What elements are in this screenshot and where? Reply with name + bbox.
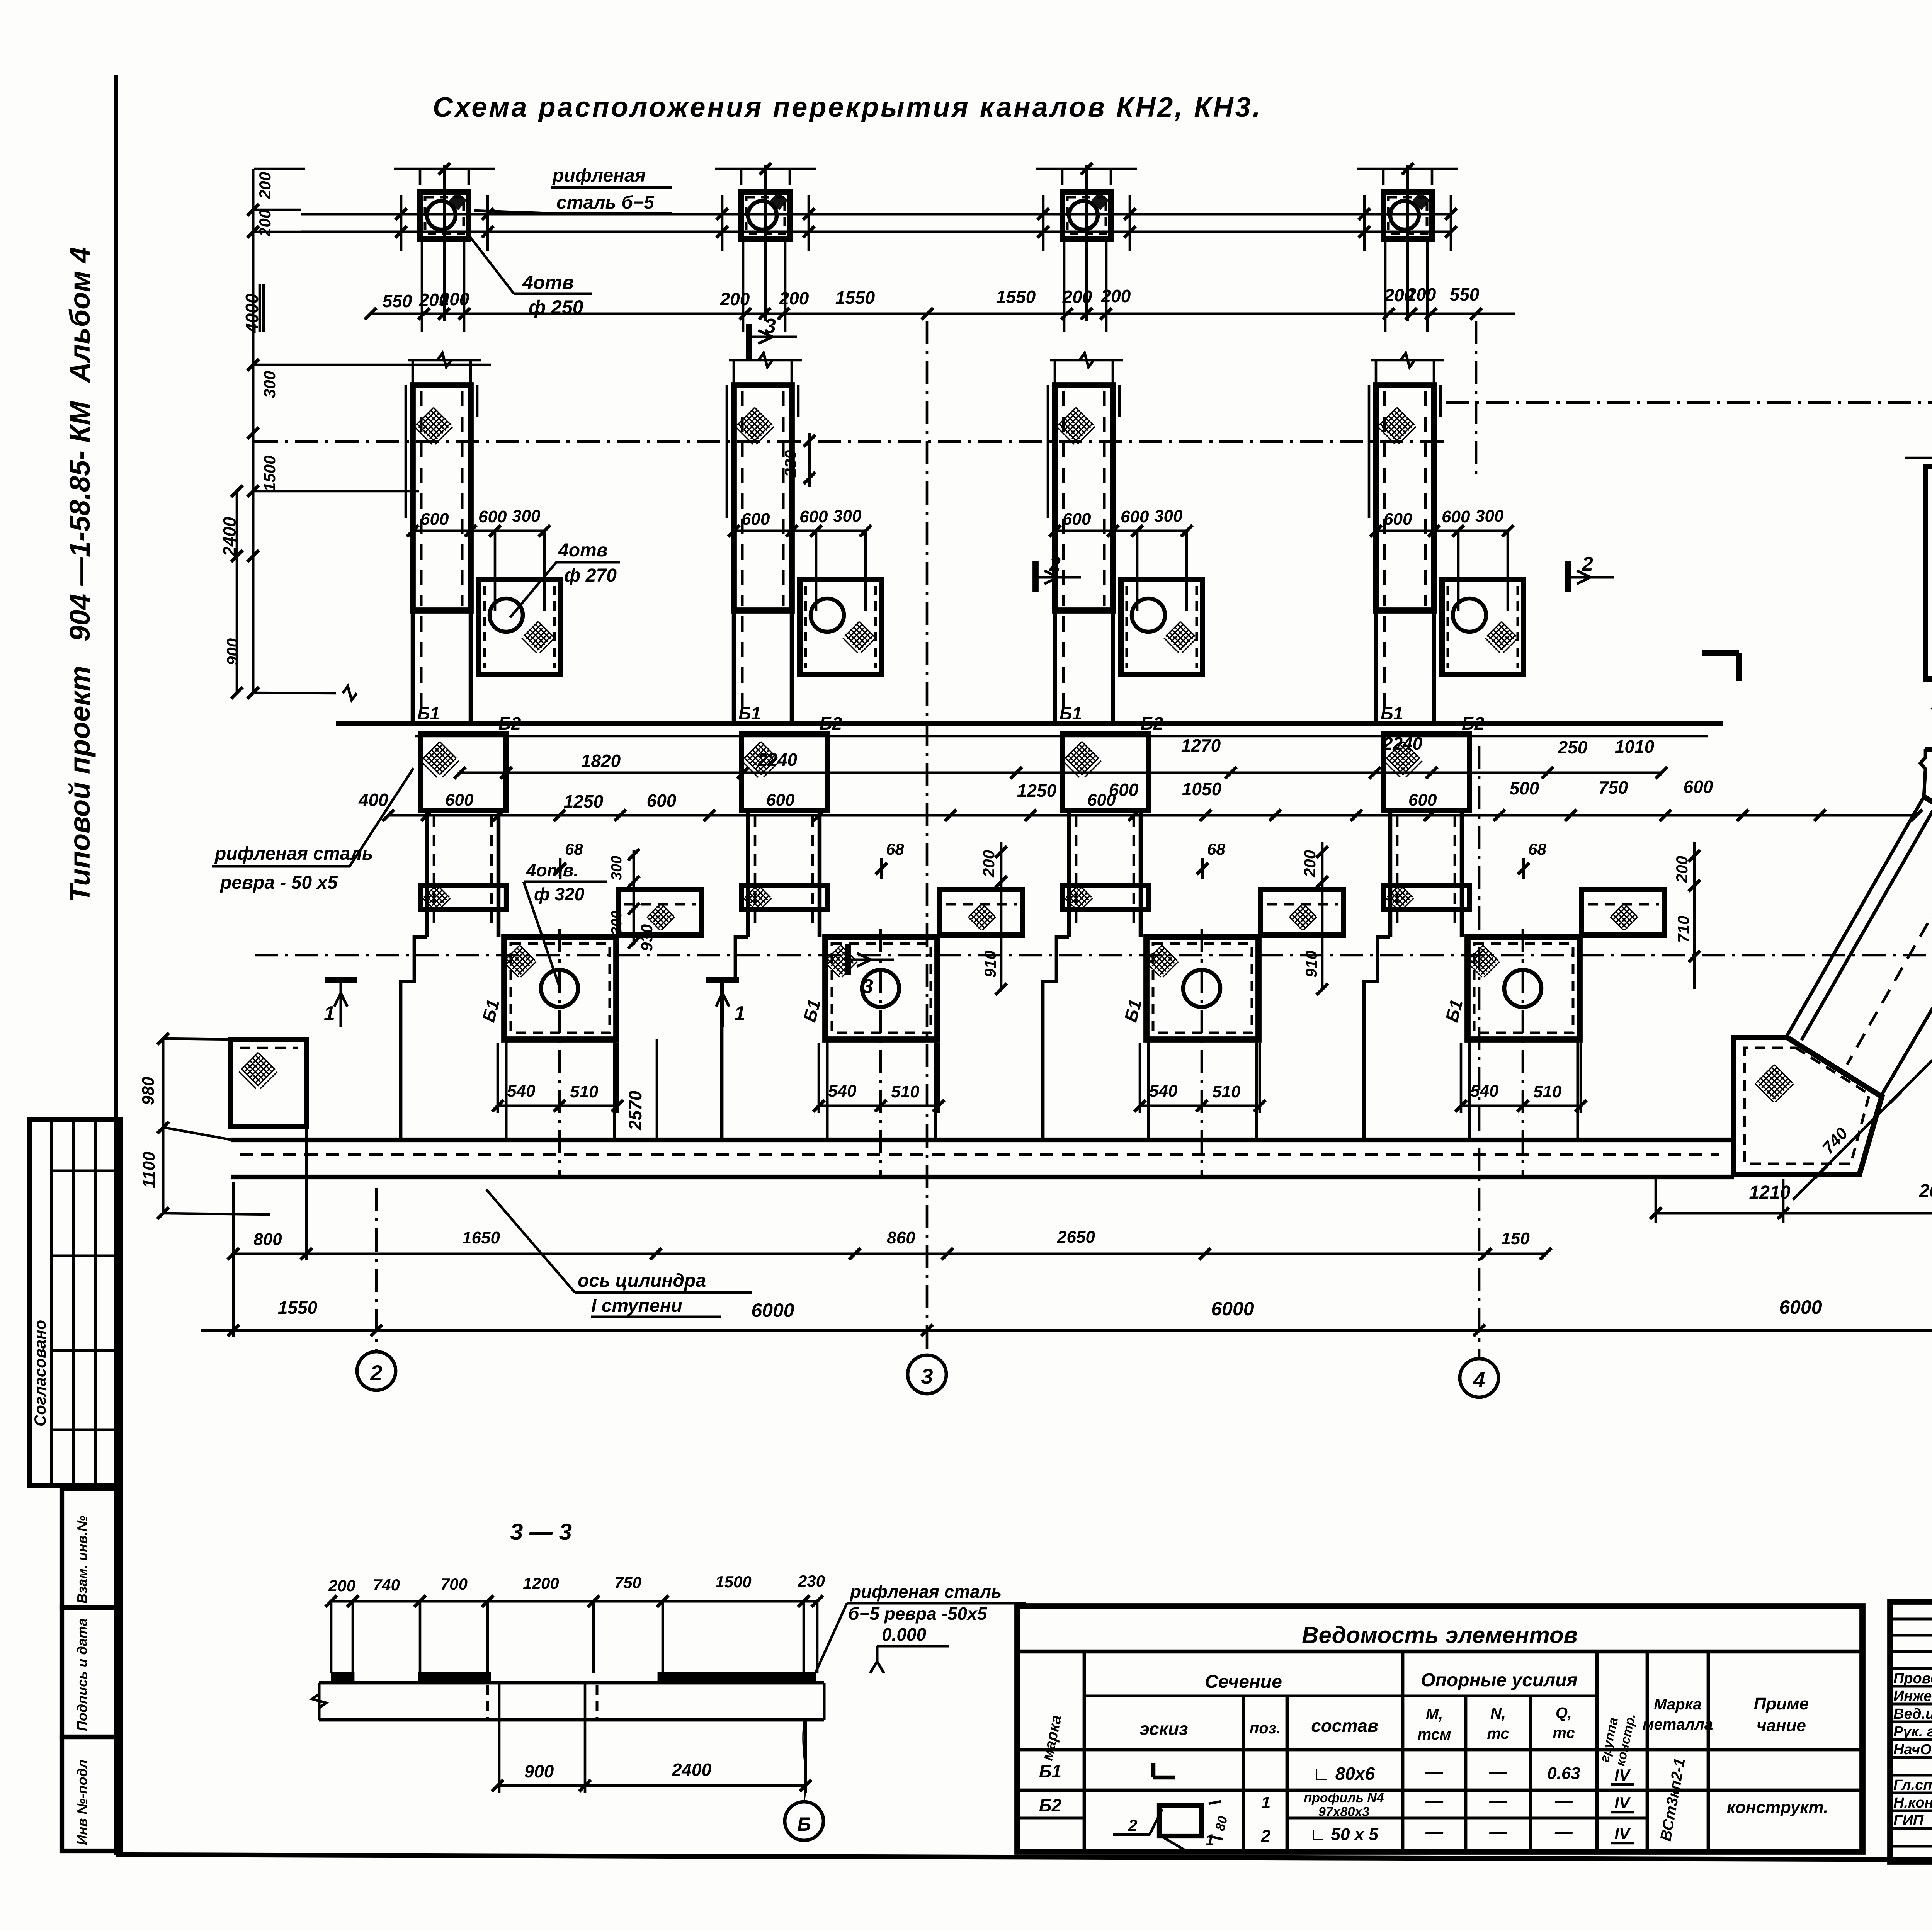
svg-text:4отв: 4отв (522, 272, 574, 293)
unit 3 right P-block (1260, 889, 1344, 935)
svg-text:600: 600 (1384, 510, 1412, 529)
svg-text:ф 320: ф 320 (534, 884, 585, 904)
svg-text:600: 600 (478, 507, 507, 526)
svg-text:1500: 1500 (715, 1573, 751, 1591)
svg-text:Б2: Б2 (1039, 1795, 1062, 1815)
svg-text:—: — (1554, 1791, 1573, 1811)
section mark 1 left (325, 977, 357, 983)
svg-text:1: 1 (1261, 1793, 1270, 1812)
svg-text:150: 150 (1501, 1229, 1530, 1248)
svg-text:2650: 2650 (1057, 1228, 1095, 1247)
svg-text:2: 2 (370, 1361, 382, 1385)
diagonal channel inner dashed (1847, 835, 1932, 1065)
svg-text:200: 200 (256, 172, 274, 199)
svg-text:1010: 1010 (1615, 736, 1655, 757)
unit 1 neck (425, 811, 429, 937)
vedomost row B1 (1017, 1789, 1862, 1792)
end pentagon box (1734, 1037, 1882, 1175)
svg-text:Опорные усилия: Опорные усилия (1421, 1670, 1577, 1690)
svg-text:500: 500 (1510, 778, 1539, 798)
svg-text:—: — (1425, 1761, 1444, 1781)
svg-text:800: 800 (253, 1230, 282, 1249)
svg-text:тсм: тсм (1418, 1726, 1451, 1743)
svg-text:металла: металла (1643, 1716, 1713, 1733)
svg-text:Проверил: Проверил (1893, 1670, 1932, 1687)
svg-text:1500: 1500 (260, 456, 279, 492)
pentagon dims 1210 2040 (1656, 1212, 1932, 1215)
svg-text:200: 200 (980, 850, 998, 878)
svg-text:М,: М, (1426, 1706, 1443, 1723)
sheet frame left border (114, 75, 118, 1855)
svg-text:200: 200 (439, 289, 469, 309)
svg-text:ГИП: ГИП (1893, 1813, 1924, 1829)
unit 1 mid block (420, 734, 506, 811)
svg-text:4отв: 4отв (558, 540, 608, 561)
unit 4 bottom square B1 with hole (1468, 937, 1580, 1039)
svg-text:ревра - 50 х5: ревра - 50 х5 (219, 872, 338, 893)
svg-text:97х80х3: 97х80х3 (1318, 1804, 1369, 1819)
svg-text:230: 230 (798, 1572, 825, 1590)
svg-text:200: 200 (779, 288, 809, 308)
vertical dims 200 910 right of units (1000, 842, 1003, 989)
svg-text:IV: IV (1614, 1825, 1631, 1843)
svg-text:—: — (1425, 1821, 1444, 1842)
dim 230 near unit2 (808, 433, 811, 487)
svg-text:0.63: 0.63 (1547, 1764, 1580, 1783)
svg-text:НачОСП-1: НачОСП-1 (1893, 1742, 1932, 1758)
axis circle 3 (926, 321, 929, 1355)
unit 4 top square with hole (1383, 192, 1432, 239)
section 3-3 plate segments (333, 1673, 353, 1682)
svg-text:профиль N4: профиль N4 (1304, 1791, 1384, 1805)
vedomost elementov table (1017, 1606, 1862, 1852)
unit 2 bottom square B1 with hole (825, 937, 937, 1039)
svg-text:750: 750 (1599, 777, 1628, 798)
unit 4 neck (1388, 811, 1393, 937)
svg-text:Сечение: Сечение (1205, 1672, 1282, 1692)
svg-text:740: 740 (373, 1576, 400, 1594)
svg-text:1650: 1650 (462, 1228, 500, 1247)
svg-text:ф 250: ф 250 (529, 296, 583, 318)
svg-text:—: — (1554, 1821, 1573, 1842)
unit 2 column break mark above (729, 359, 802, 362)
svg-text:Подпись и дата: Подпись и дата (74, 1618, 90, 1731)
svg-text:2: 2 (1582, 553, 1593, 575)
svg-text:I ступени: I ступени (591, 1296, 682, 1316)
diagonal channel transition edge (1924, 797, 1932, 851)
channel KH2 top strip lines through squares (301, 213, 1451, 216)
vertical dim 200 710 at unit4 right (1693, 842, 1696, 989)
svg-text:1250: 1250 (1017, 781, 1057, 801)
svg-text:1550: 1550 (278, 1298, 318, 1318)
unit 2 tall column (734, 385, 792, 611)
svg-text:2: 2 (1049, 553, 1061, 575)
svg-text:чание: чание (1757, 1716, 1806, 1735)
axis circle 4 (1478, 746, 1481, 1359)
svg-text:IV: IV (1614, 1766, 1631, 1784)
unit 3 neck (1067, 811, 1071, 937)
svg-text:300: 300 (833, 507, 862, 526)
svg-text:IV: IV (1614, 1794, 1631, 1812)
unit 2 foot to channel connection (826, 1039, 829, 1140)
svg-text:Взам. инв.№: Взам. инв.№ (74, 1515, 90, 1604)
svg-text:тс: тс (1553, 1725, 1575, 1742)
svg-text:1270: 1270 (1181, 735, 1221, 755)
svg-text:1550: 1550 (835, 287, 875, 308)
svg-text:Приме: Приме (1754, 1694, 1809, 1713)
section mark 3 bottom (845, 944, 851, 975)
svg-text:68: 68 (1207, 840, 1225, 858)
unit 3 top square with hole (1062, 192, 1111, 239)
svg-text:Схема расположения перек: Схема расположения перекрытия каналов КН… (433, 92, 1262, 123)
global dim line y2000 (460, 772, 1662, 774)
unit 4 tall column (1376, 385, 1434, 611)
section mark 3 top (746, 324, 752, 359)
svg-text:600: 600 (647, 791, 677, 811)
unit 2 top square with hole (741, 192, 790, 239)
svg-text:1100: 1100 (139, 1151, 158, 1188)
unit 1 bottom square B1 with hole (504, 937, 616, 1039)
svg-text:1820: 1820 (581, 751, 621, 771)
svg-text:—: — (1489, 1761, 1507, 1781)
svg-text:200: 200 (1101, 286, 1131, 306)
unit 1 right P-block (618, 889, 701, 935)
unit 1 lower column part (411, 611, 415, 723)
svg-text:N,: N, (1490, 1705, 1506, 1722)
axis circle 2 (375, 1188, 378, 1352)
svg-text:710: 710 (1674, 916, 1692, 943)
svg-text:1550: 1550 (996, 287, 1036, 307)
diagonal channel left edge (1787, 797, 1924, 1036)
svg-text:Инв №-подл: Инв №-подл (74, 1760, 90, 1845)
svg-text:3: 3 (764, 315, 776, 338)
svg-text:Б1: Б1 (1060, 703, 1082, 723)
section mark 2 right of unit2 (1032, 561, 1039, 592)
plan axis dash-dot line B right part (1446, 401, 1932, 404)
svg-text:510: 510 (570, 1082, 599, 1101)
svg-text:2240: 2240 (1383, 733, 1423, 753)
svg-text:б−5 ревра -50х5: б−5 ревра -50х5 (848, 1604, 988, 1624)
svg-text:Согласовано: Согласовано (31, 1320, 49, 1427)
svg-text:980: 980 (139, 1077, 158, 1105)
svg-text:—: — (1489, 1791, 1507, 1811)
svg-text:—: — (1425, 1791, 1444, 1811)
bottom dim row y3245 (233, 1253, 1546, 1255)
section 3-3 top dim row (331, 1600, 817, 1603)
vertical dims 300 300 930 unit1 (633, 850, 635, 945)
svg-text:510: 510 (1533, 1082, 1562, 1101)
dim row under squares y812 (371, 313, 1515, 315)
svg-text:Рук. гр.: Рук. гр. (1893, 1724, 1932, 1740)
svg-text:300: 300 (1154, 507, 1183, 526)
plan axis dash-dot line A (255, 440, 1446, 443)
svg-text:600: 600 (1121, 507, 1149, 526)
svg-text:ось цилиндра: ось цилиндра (578, 1270, 706, 1291)
svg-text:Вед.инж: Вед.инж (1893, 1706, 1932, 1722)
unit 3 foot steps (1043, 937, 1069, 1140)
sidebar stamp box Подпись и дата (62, 1607, 121, 1737)
unit 2 square witness lines to dim row (742, 240, 745, 332)
unit 1 column break mark above (408, 359, 481, 362)
unit 2 right P-block (939, 889, 1022, 935)
svg-text:Марка: Марка (1654, 1696, 1702, 1713)
svg-text:—: — (1489, 1821, 1507, 1842)
unit 2 lower column part (732, 611, 736, 723)
beam band right end bracket (1702, 650, 1739, 656)
svg-text:230: 230 (781, 450, 799, 478)
svg-text:200: 200 (1406, 284, 1436, 304)
svg-text:Б1: Б1 (738, 703, 761, 723)
svg-text:Ведомость элементов: Ведомость элементов (1302, 1622, 1578, 1648)
bottom main dim row 1550 6000 (201, 1329, 1932, 1332)
svg-text:∟ 50 х 5: ∟ 50 х 5 (1310, 1825, 1378, 1844)
unit 4 mid block (1384, 734, 1469, 811)
svg-text:Инженер: Инженер (1893, 1688, 1932, 1704)
svg-text:200: 200 (1301, 850, 1319, 878)
svg-text:6000: 6000 (751, 1299, 794, 1321)
svg-text:250: 250 (1558, 737, 1588, 757)
svg-text:ф 270: ф 270 (564, 565, 617, 586)
svg-text:2240: 2240 (757, 750, 798, 770)
svg-text:200: 200 (328, 1577, 355, 1595)
svg-text:510: 510 (891, 1082, 920, 1101)
diagonal dim line 350 2990 740 (1793, 908, 1932, 1200)
svg-text:1: 1 (1206, 1832, 1214, 1849)
svg-text:Б1: Б1 (1381, 703, 1403, 723)
svg-text:Б1: Б1 (417, 703, 440, 723)
unit 1 rib strip (420, 886, 506, 910)
svg-text:540: 540 (1470, 1082, 1499, 1100)
svg-text:600: 600 (742, 510, 770, 529)
svg-text:рифленая: рифленая (552, 165, 646, 186)
svg-text:600: 600 (1684, 777, 1713, 797)
svg-text:900: 900 (524, 1761, 554, 1781)
svg-text:550: 550 (383, 291, 412, 311)
svg-text:4отв.: 4отв. (526, 860, 578, 880)
svg-text:Q,: Q, (1556, 1704, 1572, 1721)
bottom channel left block (231, 1039, 306, 1126)
unit 3 lower column part (1053, 611, 1057, 723)
title block outline (1890, 1602, 1932, 1862)
svg-text:510: 510 (1212, 1082, 1241, 1101)
svg-text:540: 540 (828, 1082, 857, 1100)
svg-text:300: 300 (1475, 507, 1504, 526)
svg-text:Б2: Б2 (498, 713, 521, 733)
svg-text:600: 600 (445, 791, 474, 810)
unit 4 block B2 with hole (1442, 579, 1524, 675)
svg-text:2: 2 (1128, 1816, 1137, 1834)
svg-text:300: 300 (260, 371, 279, 398)
svg-text:3: 3 (862, 975, 873, 998)
svg-text:550: 550 (1450, 284, 1480, 304)
unit 2 mid block (742, 734, 827, 811)
svg-text:сталь б−5: сталь б−5 (556, 192, 655, 213)
svg-text:900: 900 (223, 638, 241, 665)
svg-text:Б1: Б1 (1039, 1761, 1061, 1781)
unit 1 foot steps (401, 937, 427, 1140)
section 3-3 axis B circle (785, 1802, 823, 1840)
sidebar stamp box Взам.инв.№ (62, 1488, 121, 1607)
unit 2 rib strip (742, 886, 827, 910)
svg-text:2570: 2570 (625, 1090, 645, 1131)
svg-text:68: 68 (886, 840, 904, 858)
svg-text:750: 750 (614, 1573, 641, 1592)
global dim line y2110 (388, 814, 1917, 817)
unit 2 foot steps (722, 937, 748, 1140)
svg-text:2400: 2400 (672, 1760, 712, 1780)
svg-text:700: 700 (440, 1575, 468, 1593)
svg-text:1250: 1250 (564, 791, 604, 811)
svg-text:конструкт.: конструкт. (1727, 1798, 1828, 1817)
svg-text:1200: 1200 (523, 1574, 559, 1592)
svg-text:∟ 80х6: ∟ 80х6 (1313, 1764, 1375, 1784)
svg-text:0.000: 0.000 (882, 1624, 927, 1645)
svg-text:состав: состав (1311, 1716, 1378, 1736)
svg-text:3 — 3: 3 — 3 (510, 1519, 572, 1545)
svg-text:930: 930 (638, 924, 656, 951)
svg-text:6000: 6000 (1211, 1298, 1254, 1320)
unit 2 block B2 with hole (800, 579, 881, 675)
vedomost B2 sketch (1159, 1805, 1202, 1836)
svg-text:600: 600 (766, 791, 795, 810)
unit 3 rib strip (1063, 886, 1148, 910)
svg-text:910: 910 (1302, 951, 1320, 978)
svg-text:400: 400 (358, 790, 388, 810)
svg-text:4: 4 (1473, 1367, 1485, 1392)
svg-text:300: 300 (609, 911, 625, 935)
svg-text:тс: тс (1487, 1725, 1509, 1742)
svg-text:904 —1-58.85- КМ: 904 —1-58.85- КМ (64, 401, 96, 641)
svg-text:Б2: Б2 (820, 713, 842, 733)
diagonal channel right edge (1882, 851, 1932, 1095)
svg-text:68: 68 (565, 840, 583, 858)
section mark 1 mid (706, 977, 739, 983)
unit 1 top square with hole (420, 192, 469, 239)
svg-text:300: 300 (512, 507, 541, 526)
svg-text:Б: Б (797, 1813, 811, 1835)
beam band line upper (336, 721, 1723, 726)
sheet frame bottom border (116, 1855, 1932, 1862)
unit 3 block B2 with hole (1121, 579, 1202, 675)
left bottom vertical dims 980 1100 (162, 1039, 165, 1213)
svg-text:эскиз: эскиз (1139, 1719, 1188, 1739)
unit 3 mid block (1063, 734, 1148, 811)
svg-text:1: 1 (734, 1002, 745, 1025)
unit 3 square witness lines to dim row (1063, 240, 1066, 332)
svg-text:6000: 6000 (1779, 1296, 1822, 1318)
svg-text:600: 600 (1408, 791, 1437, 810)
svg-text:2: 2 (1261, 1827, 1271, 1845)
unit 1 block B2 with hole (479, 579, 560, 675)
svg-text:540: 540 (507, 1082, 536, 1100)
svg-text:540: 540 (1149, 1082, 1178, 1100)
vedomost row B2 (1287, 1817, 1647, 1820)
unit 4 column break mark above (1371, 359, 1444, 362)
svg-text:68: 68 (1528, 840, 1546, 858)
svg-text:600: 600 (1109, 780, 1139, 800)
bottom channel band (231, 1138, 1734, 1142)
unit 4 rib strip (1384, 886, 1469, 910)
svg-text:Н.контр.: Н.контр. (1893, 1795, 1932, 1811)
svg-text:300: 300 (609, 856, 625, 880)
plan middle axis dash-dot through feet (255, 954, 1932, 957)
unit 3 column break mark above (1050, 359, 1123, 362)
unit 3 bottom square B1 with hole (1146, 937, 1259, 1039)
unit 4 foot steps (1364, 937, 1390, 1140)
svg-text:1050: 1050 (1182, 779, 1222, 799)
unit 5 bend (1925, 676, 1932, 682)
unit 2 neck (746, 811, 750, 937)
svg-text:2040: 2040 (1919, 1181, 1932, 1201)
svg-text:860: 860 (887, 1228, 915, 1247)
svg-text:200: 200 (1673, 856, 1691, 883)
svg-text:Типовой проект: Типовой проект (64, 666, 96, 902)
unit 4 square witness lines to dim row (1384, 240, 1387, 332)
svg-text:600: 600 (1442, 507, 1470, 526)
left extension lines (254, 364, 491, 366)
svg-text:рифленая сталь: рифленая сталь (214, 844, 373, 864)
unit 4 right P-block (1582, 889, 1665, 935)
unit 4 foot to channel connection (1468, 1039, 1471, 1140)
unit 1 foot to channel connection (505, 1039, 508, 1140)
section mark 2 right of unit4 (1565, 561, 1571, 592)
sidebar stamp box Инв № подл (62, 1737, 121, 1851)
svg-text:Альбом 4: Альбом 4 (64, 247, 96, 383)
svg-text:1: 1 (324, 1002, 335, 1025)
unit 1 square witness lines to dim row (421, 240, 423, 332)
sidebar stamp table Согласовано (29, 1120, 121, 1486)
unit 1 tall column (413, 385, 471, 611)
svg-text:рифленая сталь: рифленая сталь (849, 1582, 1002, 1602)
unit 5 column (1925, 466, 1932, 679)
svg-text:200: 200 (720, 289, 750, 309)
svg-text:910: 910 (981, 951, 999, 978)
svg-text:поз.: поз. (1250, 1720, 1281, 1737)
unit 3 foot to channel connection (1147, 1039, 1150, 1140)
svg-text:Гл.спецТО: Гл.спецТО (1893, 1777, 1932, 1793)
unit 4 lower column part (1374, 611, 1378, 723)
section 3-3 bottom dims 900 2400 (498, 1784, 806, 1787)
svg-text:200: 200 (1062, 287, 1092, 307)
section 3-3 slab (319, 1681, 824, 1685)
unit 3 tall column (1055, 385, 1113, 611)
svg-text:3: 3 (921, 1364, 933, 1388)
svg-text:Б2: Б2 (1141, 713, 1163, 733)
svg-text:600: 600 (420, 510, 449, 529)
svg-text:600: 600 (799, 507, 828, 526)
left vertical dimension chain (252, 169, 255, 694)
svg-text:Б2: Б2 (1462, 713, 1485, 733)
svg-text:600: 600 (1063, 510, 1091, 529)
